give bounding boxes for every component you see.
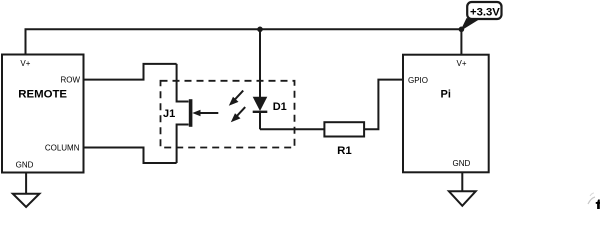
- svg-text:GND: GND: [16, 160, 34, 169]
- svg-text:Pi: Pi: [441, 88, 451, 100]
- component box Pi: [403, 55, 489, 173]
- wire COLUMN to J1 source: [84, 148, 177, 164]
- light arrow lower: [231, 107, 245, 122]
- resistor R1: [324, 122, 364, 157]
- svg-text:GPIO: GPIO: [408, 76, 428, 85]
- wire Pi GND to ground: [461, 172, 463, 191]
- svg-text:R1: R1: [337, 145, 352, 157]
- light arrow upper: [229, 91, 243, 106]
- wire REMOTE GND to ground: [25, 173, 27, 194]
- anode wire from bus: [259, 29, 261, 97]
- wire top +3.3V bus: [26, 29, 462, 54]
- svg-text:J1: J1: [163, 108, 175, 120]
- svg-text:D1: D1: [273, 101, 287, 113]
- ground symbol left: [13, 194, 40, 207]
- wire R1 to Pi GPIO: [364, 80, 403, 130]
- optocoupler dashed boundary: [161, 81, 295, 148]
- net flag +3.3V: [461, 2, 501, 30]
- svg-text:V+: V+: [457, 59, 467, 68]
- svg-text:t: t: [596, 196, 600, 209]
- gate arrowhead: [192, 110, 200, 117]
- ground symbol right: [449, 191, 476, 206]
- drain lead: [177, 64, 189, 102]
- wire D1 cathode to R1: [260, 128, 324, 130]
- transistor J1 (photo-JFET): [163, 64, 218, 163]
- svg-text:REMOTE: REMOTE: [18, 89, 67, 101]
- gate line: [199, 112, 218, 114]
- watermark smudge: [588, 197, 595, 204]
- node junction Pi V+ to bus: [459, 27, 465, 33]
- svg-text:COLUMN: COLUMN: [45, 143, 80, 152]
- svg-text:ROW: ROW: [60, 76, 80, 85]
- source lead: [177, 125, 189, 164]
- LED D1: [253, 29, 287, 129]
- svg-text:GND: GND: [453, 159, 471, 168]
- wire ROW to J1 drain: [84, 64, 177, 80]
- svg-text:+3.3V: +3.3V: [470, 6, 500, 18]
- channel bar: [189, 99, 193, 127]
- svg-text:V+: V+: [20, 59, 30, 68]
- node junction D1 anode to bus: [257, 27, 263, 33]
- component box REMOTE: [2, 55, 84, 173]
- wire Pi V+ riser: [460, 29, 462, 54]
- cathode wire down: [259, 112, 261, 130]
- cathode bar: [253, 111, 268, 113]
- diode triangle: [253, 97, 268, 111]
